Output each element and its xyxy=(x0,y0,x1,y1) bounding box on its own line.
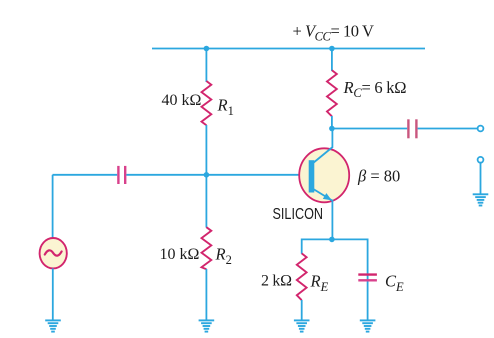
wire collector vertical xyxy=(331,129,333,148)
node junction rail-RC xyxy=(329,46,335,52)
label 10 kΩ xyxy=(160,246,200,263)
wire source top xyxy=(52,175,54,238)
svg-text:β = 80: β = 80 xyxy=(357,166,400,185)
wire emitter horizontal xyxy=(302,238,368,240)
node emitter junction xyxy=(329,237,335,243)
label 2 kΩ xyxy=(261,273,292,290)
resistor R2 xyxy=(202,227,212,269)
wire emitter node to CE xyxy=(367,239,369,321)
wire R1 to base node xyxy=(205,125,207,175)
svg-text:SILICON: SILICON xyxy=(273,206,324,223)
svg-text:2 kΩ: 2 kΩ xyxy=(261,273,292,290)
wire RE to ground xyxy=(301,300,303,320)
svg-text:10 kΩ: 10 kΩ xyxy=(160,246,200,263)
resistor R1 xyxy=(202,81,212,125)
wire source to ground xyxy=(52,268,54,320)
wire top supply rail xyxy=(152,48,425,50)
svg-text:R1: R1 xyxy=(217,96,234,119)
node junction rail-R1 xyxy=(204,46,210,52)
label SILICON xyxy=(273,206,324,223)
wire rail to RC xyxy=(331,49,333,72)
svg-text:+ VCC= 10 V: + VCC= 10 V xyxy=(293,21,374,43)
output terminal (open circle, bottom) xyxy=(478,157,484,163)
ground (CE) xyxy=(360,320,376,331)
ground (RE) xyxy=(294,320,310,331)
wire Cin to base xyxy=(126,174,311,176)
svg-text:RE: RE xyxy=(310,271,329,294)
label RE xyxy=(310,271,329,294)
wire output cap to terminal xyxy=(418,128,478,130)
wire emitter vertical xyxy=(331,200,333,240)
node collector junction xyxy=(329,126,335,132)
resistor RC xyxy=(327,70,337,116)
svg-text:RC= 6 kΩ: RC= 6 kΩ xyxy=(343,78,407,100)
ground (R2) xyxy=(199,320,215,331)
label CE xyxy=(385,271,404,294)
output terminal (open circle, top) xyxy=(478,126,484,132)
capacitor Cin (input coupling) xyxy=(118,166,125,184)
svg-text:R2: R2 xyxy=(215,245,232,268)
wire base node to R2 xyxy=(205,175,207,228)
capacitor Cout (output coupling) xyxy=(408,119,416,138)
wire R2 to ground xyxy=(205,269,207,320)
wire bottom terminal to ground xyxy=(480,163,482,195)
label R2 xyxy=(215,245,232,268)
label beta = 80 xyxy=(357,166,400,185)
label RC = 6 kΩ xyxy=(343,78,407,100)
svg-text:40 kΩ: 40 kΩ xyxy=(162,92,202,109)
wire RC to collector node xyxy=(331,116,333,129)
node base junction xyxy=(204,172,210,178)
label +VCC = 10 V xyxy=(293,21,374,43)
ac source Vin xyxy=(40,238,67,268)
wire rail to R1 xyxy=(205,49,207,83)
label R1 xyxy=(217,96,234,119)
wire collector node to output cap xyxy=(332,128,407,130)
capacitor CE (emitter bypass) xyxy=(358,275,377,281)
wire input left segment xyxy=(53,174,118,176)
svg-text:CE: CE xyxy=(385,271,404,294)
ground (input source) xyxy=(45,320,61,331)
wire emitter node to RE xyxy=(301,239,303,254)
resistor RE xyxy=(297,253,307,300)
transistor Q1 (NPN, silicon) xyxy=(299,147,349,202)
ground (output terminal) xyxy=(473,194,489,205)
label 40 kΩ xyxy=(162,92,202,109)
